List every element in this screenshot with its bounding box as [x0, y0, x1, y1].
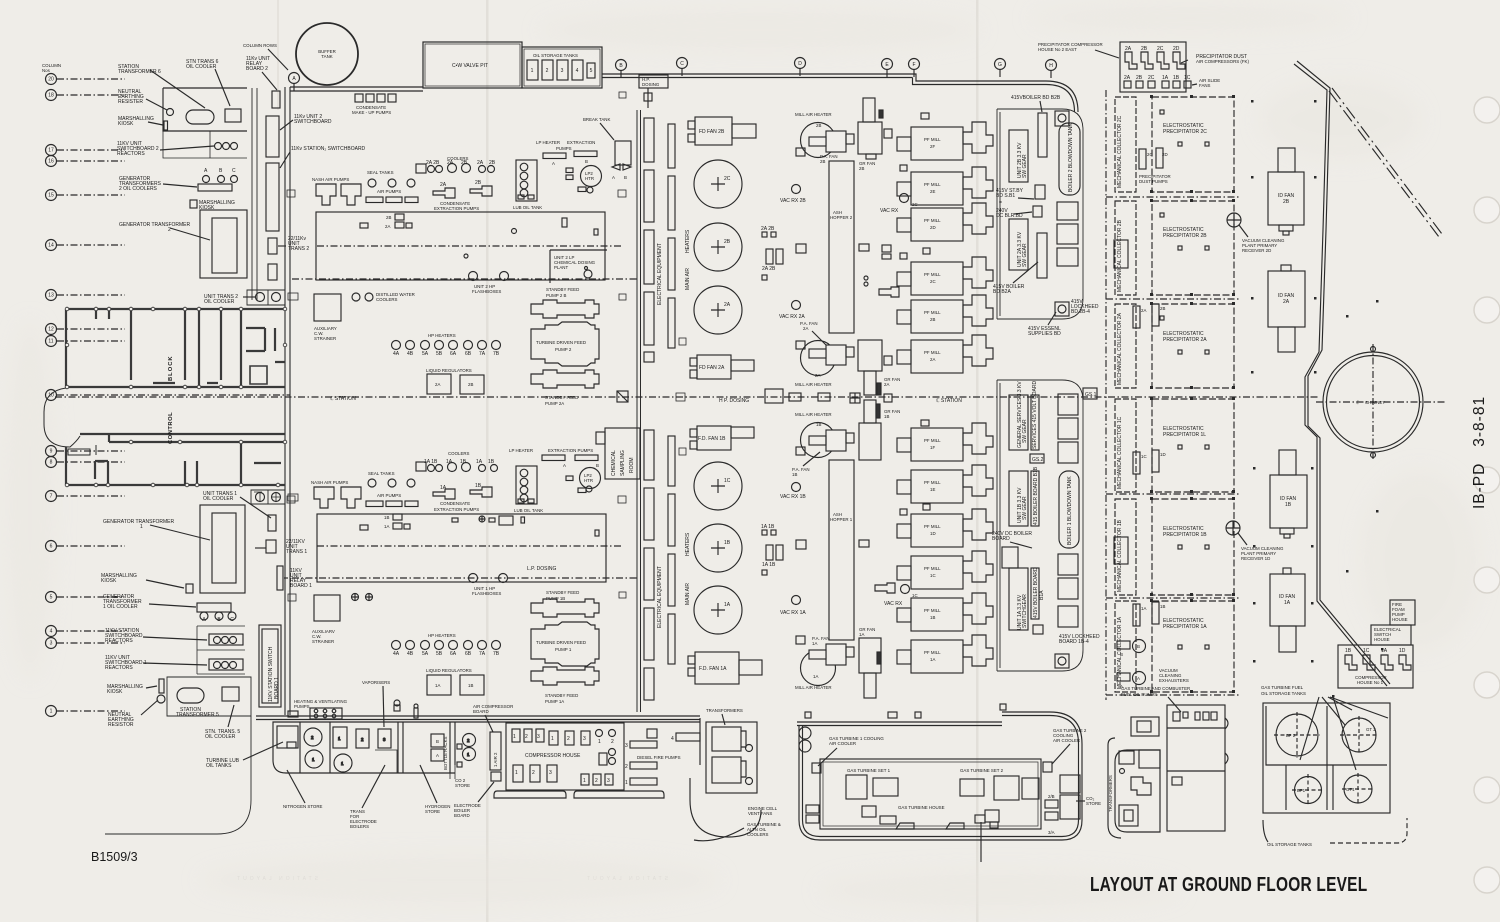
svg-text:SW GEAR: SW GEAR: [1022, 496, 1028, 520]
svg-text:1 AIR 2: 1 AIR 2: [493, 752, 498, 767]
lub oil tank unit1: [516, 466, 537, 504]
svg-text:COOLERS: COOLERS: [747, 832, 769, 837]
svg-text:AIR COMPRESSORS (FK): AIR COMPRESSORS (FK): [1196, 59, 1249, 64]
svg-text:BD B2A: BD B2A: [993, 289, 1011, 295]
svg-text:EXTRACTION: EXTRACTION: [567, 140, 595, 145]
svg-text:BOARD 2: BOARD 2: [246, 66, 268, 72]
svg-text:2A: 2A: [815, 373, 820, 378]
svg-text:REACTORS: REACTORS: [117, 151, 145, 157]
svg-text:BLOCK: BLOCK: [168, 355, 174, 381]
svg-text:DUST PUMPS: DUST PUMPS: [1139, 179, 1168, 184]
svg-text:2: 2: [625, 764, 628, 770]
condenser rect unit2: [316, 212, 605, 280]
enclosure around station transformer 5: [167, 677, 251, 716]
svg-text:18: 18: [48, 93, 54, 99]
svg-text:2B: 2B: [820, 159, 825, 164]
11kv station switch board 1: [259, 625, 281, 707]
svg-text:1A: 1A: [435, 683, 440, 688]
svg-text:1B: 1B: [1285, 502, 1292, 508]
svg-text:2A: 2A: [724, 302, 731, 308]
svg-text:BOILERS: BOILERS: [350, 824, 369, 829]
svg-text:HOUSE No 2 EAST: HOUSE No 2 EAST: [1038, 47, 1077, 52]
svg-text:1C: 1C: [724, 478, 731, 484]
svg-text:MAIN AIR: MAIN AIR: [685, 268, 691, 290]
vacuum receivers: [1227, 213, 1241, 227]
svg-text:F: F: [912, 62, 915, 68]
unit2 right col: [668, 124, 675, 168]
LP2 HTR unit1: [580, 468, 601, 489]
cooling air coolers small boxes on corners: [806, 762, 1058, 823]
svg-text:BD 2B-4: BD 2B-4: [1071, 309, 1090, 315]
svg-text:BOILER 1 BLOWDOWN TANK: BOILER 1 BLOWDOWN TANK: [1067, 476, 1073, 545]
svg-text:ℂ STATION: ℂ STATION: [936, 398, 962, 404]
svg-text:1B: 1B: [930, 615, 935, 620]
svg-text:5: 5: [50, 595, 53, 601]
standby feed pump 2A: [531, 370, 599, 388]
svg-text:KIOSK: KIOSK: [107, 689, 123, 695]
svg-text:1B: 1B: [475, 483, 482, 489]
svg-text:HTR: HTR: [584, 478, 593, 483]
svg-text:B: B: [436, 739, 439, 744]
vacuum cleaning exhausters (bottom): [1133, 640, 1146, 653]
svg-text:OIL COOLER: OIL COOLER: [205, 734, 236, 740]
CO2 store right: [1060, 775, 1080, 819]
svg-text:GAS TURBINE AND COMBUSTER: GAS TURBINE AND COMBUSTER: [1121, 686, 1190, 691]
svg-text:BOARD: BOARD: [454, 813, 470, 818]
svg-text:KIOSK: KIOSK: [101, 578, 117, 584]
svg-text:8: 8: [50, 460, 53, 466]
svg-text:GENERATOR TRANSFORMER: GENERATOR TRANSFORMER: [119, 222, 191, 228]
svg-text:FLASHBOXES: FLASHBOXES: [472, 289, 501, 294]
svg-text:VAC RX 2A: VAC RX 2A: [779, 314, 805, 320]
svg-text:SAMPLING: SAMPLING: [620, 450, 626, 476]
svg-text:OIL STORAGE TANKS: OIL STORAGE TANKS: [1261, 691, 1306, 696]
svg-text:TRANSFORMERS: TRANSFORMERS: [1108, 775, 1113, 812]
standby feed pump 1A: [531, 667, 599, 685]
svg-text:A: A: [552, 161, 555, 166]
svg-text:C: C: [230, 617, 234, 623]
svg-text:7A: 7A: [479, 651, 486, 657]
svg-text:REACTORS: REACTORS: [105, 638, 133, 644]
svg-text:2A: 2A: [435, 382, 440, 387]
svg-text:2: 2: [525, 734, 528, 740]
scattered small boxes near mills: [900, 113, 930, 515]
main south wall: [256, 716, 700, 720]
svg-text:B1509/3: B1509/3: [91, 850, 138, 864]
svg-text:PRECIPITATOR 2C: PRECIPITATOR 2C: [1163, 129, 1207, 135]
svg-text:ℂ: ℂ: [1356, 400, 1359, 405]
auxiliary CW strainer unit1: [314, 595, 340, 621]
svg-text:MILL AIR HEATER: MILL AIR HEATER: [795, 412, 832, 417]
svg-text:1A: 1A: [384, 524, 389, 529]
GR fan 1A: [859, 638, 881, 698]
svg-text:PF MILL: PF MILL: [924, 310, 941, 315]
svg-text:6A: 6A: [450, 651, 457, 657]
svg-text:20: 20: [48, 77, 54, 83]
main air heater circles: [694, 160, 742, 634]
svg-text:ℂ STATION: ℂ STATION: [330, 396, 356, 402]
svg-text:PRECIPITATOR 1B: PRECIPITATOR 1B: [1163, 532, 1207, 538]
svg-text:9: 9: [50, 449, 53, 455]
svg-text:CHIMNEY: CHIMNEY: [1365, 400, 1385, 405]
bottle racks: [431, 734, 444, 761]
svg-text:1: 1: [140, 524, 143, 530]
small items in condenser 2: [360, 214, 598, 258]
svg-text:12: 12: [48, 327, 54, 333]
svg-text:5A: 5A: [422, 651, 429, 657]
svg-text:7B: 7B: [493, 351, 500, 357]
vac rx 1C: [901, 585, 910, 594]
svg-text:4B: 4B: [407, 351, 414, 357]
svg-text:6B: 6B: [465, 651, 472, 657]
chemical sampling room: [605, 428, 640, 479]
svg-text:AIR COOLER: AIR COOLER: [829, 741, 856, 746]
svg-text:EXTRACTION PUMPS: EXTRACTION PUMPS: [434, 507, 479, 512]
svg-text:BOARD 1: BOARD 1: [290, 583, 312, 589]
svg-text:1B: 1B: [384, 515, 389, 520]
svg-text:SUPPLIES BD: SUPPLIES BD: [1028, 331, 1061, 337]
scattered small dots right of precips: [1251, 100, 1384, 698]
vac rx 1B: [792, 483, 801, 492]
svg-text:TRANS 1: TRANS 1: [286, 549, 307, 555]
svg-text:GENERATOR TRANSFORMER: GENERATOR TRANSFORMER: [103, 519, 175, 525]
svg-text:PF MILL: PF MILL: [924, 566, 941, 571]
station transformer 6 stadium: [186, 110, 214, 124]
condensate make-up pumps: [355, 94, 396, 102]
svg-text:BOARD 1: BOARD 1: [274, 677, 280, 699]
svg-text:FD FAN 2A: FD FAN 2A: [699, 365, 725, 371]
condensate extraction pumps unit1: [440, 483, 482, 491]
GR fan 2A: [858, 340, 892, 395]
svg-text:HEATERS: HEATERS: [685, 229, 691, 253]
svg-text:4A: 4A: [393, 351, 400, 357]
svg-text:2B: 2B: [859, 166, 864, 171]
11kv station 2 switchboard: [266, 163, 279, 231]
svg-text:MECHANICAL COLLECTOR 2A: MECHANICAL COLLECTOR 2A: [1117, 312, 1123, 385]
svg-text:1C: 1C: [912, 593, 918, 598]
svg-text:415VBOILER BD B2B: 415VBOILER BD B2B: [1011, 95, 1061, 101]
small box left of fuel pumps: [1131, 717, 1159, 736]
svg-text:SWITCHBOARD: SWITCHBOARD: [294, 119, 332, 125]
svg-text:2A: 2A: [1125, 46, 1132, 52]
svg-text:16: 16: [48, 159, 54, 165]
svg-text:PUMP 2: PUMP 2: [555, 347, 572, 352]
svg-text:5B: 5B: [436, 351, 443, 357]
svg-text:BF 2: BF 2: [1286, 733, 1296, 738]
svg-text:1: 1: [551, 736, 554, 742]
marshalling kiosk + circle: [159, 679, 164, 693]
svg-text:KIOSK: KIOSK: [118, 121, 134, 127]
svg-text:Nos: Nos: [42, 68, 51, 73]
gt cooling circles top-left: [799, 727, 811, 739]
11kv station switchboard reactors: [209, 634, 243, 645]
svg-text:BOILER 2 BLOWDOWN TANK: BOILER 2 BLOWDOWN TANK: [1068, 123, 1074, 192]
svg-text:SWITCHGEAR: SWITCHGEAR: [1022, 594, 1028, 628]
svg-text:LIQUID REGULATORS: LIQUID REGULATORS: [426, 368, 472, 373]
svg-text:6A: 6A: [450, 351, 457, 357]
reactors A B C circles in box: [215, 143, 222, 150]
small items unit1: [762, 530, 895, 593]
svg-text:14: 14: [48, 243, 54, 249]
svg-text:OIL COOLER: OIL COOLER: [186, 64, 217, 70]
svg-text:STORE: STORE: [1086, 801, 1101, 806]
svg-text:1B: 1B: [468, 683, 473, 688]
svg-text:PRECIPITATOR 2B: PRECIPITATOR 2B: [1163, 233, 1207, 239]
unit2 left col long rects: [644, 118, 654, 162]
svg-text:2C: 2C: [1157, 46, 1164, 52]
svg-text:1B: 1B: [1173, 75, 1180, 81]
svg-text:FLASHBOXES: FLASHBOXES: [472, 591, 501, 596]
svg-text:A: A: [563, 463, 566, 468]
svg-text:LP HEATER: LP HEATER: [509, 448, 533, 453]
svg-text:1A: 1A: [440, 485, 447, 491]
ash hopper 2: [829, 161, 854, 333]
svg-text:1A: 1A: [813, 674, 818, 679]
svg-text:OIL STORAGE TANKS: OIL STORAGE TANKS: [533, 53, 578, 58]
svg-text:1C: 1C: [1363, 648, 1370, 654]
west wall of turbine hall + 11kv boards: [252, 87, 290, 715]
svg-text:GAS TURBINE HOUSE: GAS TURBINE HOUSE: [898, 805, 945, 810]
svg-text:B: B: [1137, 644, 1140, 649]
svg-text:415 BOILER BOARD B1B: 415 BOILER BOARD B1B: [1033, 466, 1039, 525]
svg-text:EXTRACTION PUMPS: EXTRACTION PUMPS: [434, 206, 479, 211]
ghost bleed-through text: [234, 876, 668, 882]
svg-text:AIR PUMPS: AIR PUMPS: [377, 493, 401, 498]
svg-text:PF MILL: PF MILL: [924, 137, 941, 142]
turbine driven feed pump 2: [531, 322, 599, 366]
svg-text:H: H: [1049, 63, 1053, 69]
svg-text:FANS: FANS: [1199, 83, 1211, 88]
svg-text:1F: 1F: [930, 445, 935, 450]
svg-text:MECHANICAL COLLECTOR 2B: MECHANICAL COLLECTOR 2B: [1117, 219, 1123, 292]
svg-text:1D: 1D: [930, 531, 936, 536]
svg-text:1A: 1A: [930, 657, 935, 662]
svg-text:2C: 2C: [1148, 75, 1155, 81]
svg-text:4: 4: [576, 68, 579, 74]
svg-text:2A: 2A: [1283, 299, 1290, 305]
HP dosing box top: [639, 75, 668, 88]
svg-text:VENT FANS: VENT FANS: [748, 811, 772, 816]
svg-text:PUMP 1A: PUMP 1A: [545, 699, 564, 704]
svg-text:C: C: [232, 168, 236, 174]
svg-text:GAS TURBINE FUEL: GAS TURBINE FUEL: [1261, 685, 1304, 690]
svg-text:3: 3: [607, 778, 610, 784]
svg-text:1C: 1C: [1141, 454, 1147, 459]
condenser rect unit1: [317, 514, 606, 582]
svg-text:11Kv STATION₂ SWITCHBOARD: 11Kv STATION₂ SWITCHBOARD: [291, 146, 366, 152]
svg-text:1B: 1B: [1160, 604, 1165, 609]
svg-text:F.D. FAN 1B: F.D. FAN 1B: [698, 436, 726, 442]
ash hopper 1: [829, 460, 854, 640]
svg-text:NASH AIR PUMPS: NASH AIR PUMPS: [312, 177, 349, 182]
chimney: [1323, 352, 1423, 452]
svg-text:RECEIVER 2D: RECEIVER 2D: [1242, 248, 1271, 253]
svg-text:13: 13: [48, 293, 54, 299]
svg-text:CHEMICAL: CHEMICAL: [611, 450, 617, 476]
svg-text:STORE: STORE: [455, 783, 470, 788]
svg-text:STANDBY FEED: STANDBY FEED: [545, 395, 578, 400]
svg-text:L.P. DOSING: L.P. DOSING: [527, 566, 556, 572]
svg-text:1: 1: [50, 709, 53, 715]
svg-text:1E: 1E: [930, 487, 935, 492]
svg-text:MECHANICAL COLLECTOR 1B: MECHANICAL COLLECTOR 1B: [1117, 519, 1123, 592]
svg-text:=: =: [999, 200, 1002, 206]
svg-text:C: C: [680, 61, 684, 67]
svg-text:17: 17: [48, 148, 54, 154]
svg-text:STRAINER: STRAINER: [314, 336, 336, 341]
svg-text:3: 3: [625, 743, 628, 749]
plinth bars: [494, 791, 566, 798]
svg-text:BOARD: BOARD: [992, 536, 1010, 542]
svg-text:2B: 2B: [475, 180, 482, 186]
south-west site boundary: [105, 716, 251, 834]
svg-text:PF MILL: PF MILL: [924, 480, 941, 485]
svg-text:TRANSFORMER 5: TRANSFORMER 5: [176, 712, 219, 718]
11kv unit relay board 1 bar: [277, 566, 283, 590]
svg-text:GT 2: GT 2: [1366, 727, 1376, 732]
svg-text:A: A: [1137, 676, 1140, 681]
svg-text:GT1: GT1: [1346, 787, 1355, 792]
svg-text:PUMPS: PUMPS: [556, 146, 572, 151]
svg-text:LUB OIL TANK: LUB OIL TANK: [514, 508, 543, 513]
svg-text:EXHAUSTERS: EXHAUSTERS: [1159, 678, 1189, 683]
svg-text:OIL TANKS: OIL TANKS: [206, 763, 232, 769]
svg-text:2B: 2B: [1136, 75, 1143, 81]
svg-text:6B: 6B: [465, 351, 472, 357]
svg-text:2B: 2B: [1141, 46, 1148, 52]
svg-text:PUMPS: PUMPS: [294, 704, 310, 709]
svg-text:STANDBY FEED: STANDBY FEED: [545, 693, 578, 698]
svg-text:LAYOUT AT GROUND FLOOR LEV: LAYOUT AT GROUND FLOOR LEVEL: [1090, 873, 1367, 896]
svg-text:2B: 2B: [816, 123, 821, 128]
svg-text:1D: 1D: [1160, 452, 1166, 457]
svg-text:GAS TURBINE SET 2: GAS TURBINE SET 2: [960, 768, 1004, 773]
svg-text:RESISTOR: RESISTOR: [108, 722, 134, 728]
svg-text:VAC RX: VAC RX: [880, 208, 899, 214]
svg-text:MILL AIR HEATER: MILL AIR HEATER: [795, 382, 832, 387]
svg-text:2C: 2C: [724, 176, 731, 182]
svg-text:GS.1: GS.1: [1085, 392, 1097, 398]
svg-text:LIQUID REGULATORS: LIQUID REGULATORS: [426, 668, 472, 673]
vac rx 2A + PA fan 2A: [792, 301, 801, 310]
svg-text:B: B: [585, 159, 588, 164]
svg-text:1: 1: [513, 734, 516, 740]
svg-text:TANK: TANK: [321, 54, 332, 59]
svg-text:ROOM: ROOM: [629, 457, 635, 473]
svg-text:BOARD: BOARD: [473, 709, 489, 714]
svg-text:OIL STORAGE TANKS: OIL STORAGE TANKS: [1267, 842, 1312, 847]
svg-text:LP HEATER: LP HEATER: [536, 140, 560, 145]
svg-text:TRANSFORMERS: TRANSFORMERS: [706, 708, 743, 713]
svg-text:2A: 2A: [1141, 308, 1146, 313]
svg-text:PF MILL: PF MILL: [924, 350, 941, 355]
svg-text:MECHANICAL COLLECTOR 2C: MECHANICAL COLLECTOR 2C: [1117, 115, 1123, 188]
svg-text:1 OIL COOLER: 1 OIL COOLER: [103, 604, 138, 610]
LP2 HTR unit2: [581, 166, 602, 187]
svg-text:GAS TURBINE SET 1: GAS TURBINE SET 1: [847, 768, 891, 773]
svg-text:CONTROL: CONTROL: [168, 412, 174, 444]
svg-text:MILL AIR HEATER: MILL AIR HEATER: [795, 112, 832, 117]
svg-text:2/B: 2/B: [1048, 794, 1055, 799]
CW valve pit: [423, 42, 522, 88]
diesel fire pumps: [630, 729, 700, 785]
svg-text:1A 1B: 1A 1B: [762, 562, 776, 568]
svg-text:D: D: [798, 61, 802, 67]
svg-text:5: 5: [590, 68, 593, 74]
svg-text:SW GEAR: SW GEAR: [1022, 154, 1028, 178]
horizontal dash-dot separators: [1106, 197, 1240, 695]
svg-text:HEATERS: HEATERS: [685, 532, 691, 556]
22/11kv unit trans 1: [266, 540, 276, 553]
svg-text:7: 7: [50, 494, 53, 500]
svg-text:2A 2B: 2A 2B: [761, 226, 775, 232]
svg-text:C•W VALVE PIT: C•W VALVE PIT: [452, 63, 488, 69]
svg-text:4A: 4A: [393, 651, 400, 657]
svg-text:1A: 1A: [1381, 648, 1388, 654]
unit 2 LP chemical dosing plant: [550, 250, 607, 283]
svg-text:STANDBY FEED: STANDBY FEED: [546, 287, 579, 292]
svg-text:NASH AIR PUMPS: NASH AIR PUMPS: [311, 480, 348, 485]
svg-text:SEAL TANKS: SEAL TANKS: [368, 471, 395, 476]
svg-text:2D: 2D: [1173, 46, 1180, 52]
svg-text:1A: 1A: [1141, 606, 1146, 611]
svg-text:VAC RX 1B: VAC RX 1B: [780, 494, 806, 500]
station transformer 5: [177, 688, 204, 703]
condensate extraction pumps unit2: [440, 180, 482, 188]
svg-text:PLANT: PLANT: [554, 265, 568, 270]
svg-text:1D: 1D: [1399, 648, 1406, 654]
svg-text:AIR COOLER: AIR COOLER: [1053, 738, 1080, 743]
turbine driven feed pump 1: [531, 622, 599, 666]
svg-text:2C: 2C: [1147, 152, 1153, 157]
svg-text:3: 3: [561, 68, 564, 74]
paper creases: [486, 0, 489, 922]
svg-text:COLUMN ROWS: COLUMN ROWS: [243, 43, 277, 48]
svg-text:STANDBY FEED: STANDBY FEED: [546, 590, 579, 595]
svg-text:PRECIPITATOR 1L: PRECIPITATOR 1L: [1163, 432, 1206, 438]
svg-text:HOUSE: HOUSE: [1374, 637, 1390, 642]
svg-text:TURBINE DRIVEN FEED: TURBINE DRIVEN FEED: [536, 640, 586, 645]
oil storage tank enclosure: [1263, 703, 1390, 813]
electrical switch house: [1371, 625, 1411, 645]
svg-text:2A: 2A: [803, 326, 808, 331]
svg-text:2B: 2B: [1283, 199, 1290, 205]
svg-text:1: 1: [583, 778, 586, 784]
precip corner + mid tick squares: [1150, 95, 1235, 693]
svg-text:B: B: [1120, 652, 1123, 657]
svg-text:1A: 1A: [812, 641, 817, 646]
22/11kv unit trans 2: [268, 238, 277, 254]
inner small squares of precip rows: [1160, 110, 1209, 649]
svg-text:6: 6: [50, 544, 53, 550]
svg-text:F.D. FAN 1A: F.D. FAN 1A: [699, 666, 727, 672]
svg-text:MAIN AIR: MAIN AIR: [685, 583, 691, 605]
tanks: [1276, 714, 1318, 756]
svg-text:1B: 1B: [884, 414, 889, 419]
svg-text:3/A: 3/A: [1048, 830, 1055, 835]
svg-text:1A: 1A: [724, 602, 731, 608]
oil storage tanks: [522, 47, 602, 88]
svg-text:NITROGEN STORE: NITROGEN STORE: [283, 804, 323, 809]
svg-text:1B: 1B: [792, 472, 797, 477]
svg-text:PF MILL: PF MILL: [924, 272, 941, 277]
svg-text:HTR: HTR: [585, 176, 594, 181]
svg-text:ELECTRICAL EQUIPMENT: ELECTRICAL EQUIPMENT: [657, 566, 663, 628]
oil cooler circles: [256, 493, 265, 502]
svg-text:B1A: B1A: [1039, 590, 1045, 600]
buffer tank: [296, 23, 358, 85]
site boundary double line + diagonal: [1294, 61, 1390, 686]
